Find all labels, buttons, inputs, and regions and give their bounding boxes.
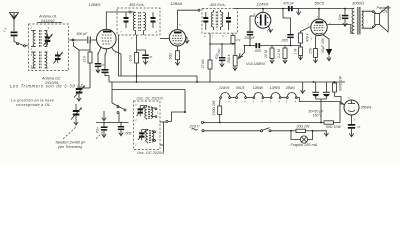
trimmer capacitor osc OC (138, 130, 146, 141)
tube V3 12AV6 (254, 12, 271, 34)
oscillator grid line from V1 (98, 51, 100, 60)
terminal node at box output (72, 39, 74, 41)
svg-text:corresponde a OL: corresponde a OL (16, 103, 50, 107)
capacitor 100pF to ground (214, 43, 225, 67)
svg-text:.005: .005 (254, 49, 261, 53)
oscillator feed wire (168, 111, 186, 121)
resistor below to ground (294, 46, 303, 60)
heater wire to rectifier (297, 98, 344, 105)
trimmer capacitor in T1 left (124, 12, 129, 28)
capacitor 100pF osc grid (95, 60, 106, 73)
svg-text:600Ω 1W: 600Ω 1W (339, 76, 343, 91)
tube V1 12BE6 (97, 29, 117, 49)
svg-text:Osc. OC 2020/4: Osc. OC 2020/4 (137, 151, 164, 155)
heater wire (231, 97, 236, 99)
svg-text:12AV6: 12AV6 (257, 1, 270, 6)
ground rail C (112, 82, 186, 113)
osc pin numbers (134, 103, 159, 147)
svg-text:12AV6: 12AV6 (219, 86, 229, 90)
V4 screen to rail (318, 9, 320, 20)
svg-text:27 kΩ: 27 kΩ (201, 59, 205, 70)
capacitor 470 (95, 123, 107, 138)
transformer T1 secondary winding (144, 12, 146, 35)
svg-text:Foquito 250 mA: Foquito 250 mA (291, 143, 318, 147)
svg-text:56Ω: 56Ω (169, 53, 173, 60)
detector line (210, 43, 235, 45)
ground at V2 right pin (185, 37, 189, 43)
V3 plate wire to rail (262, 9, 264, 13)
svg-text:150: 150 (309, 48, 313, 54)
svg-text:3000Ω: 3000Ω (352, 0, 364, 5)
wire bottom junction line (96, 111, 129, 123)
electrolytic 50uF 25V cathode bypass (321, 35, 332, 61)
core T2 (216, 12, 218, 28)
wires right of oscillator box (160, 120, 168, 151)
V3 cathode ground (268, 26, 272, 32)
svg-text:Los Trimmers son de 3-30 μF: Los Trimmers son de 3-30 μF (10, 84, 84, 89)
heater wire (281, 97, 286, 99)
svg-text:Osc. OL 2021/2: Osc. OL 2021/2 (137, 97, 164, 101)
output transformer T3 primary (352, 8, 354, 33)
svg-text:.005: .005 (125, 132, 132, 136)
AVC feed wire from 22k (79, 87, 90, 89)
T1 pin numbers (120, 30, 158, 40)
wire from terminal to tuning cap (74, 42, 91, 88)
dashed box antenna coil assembly (29, 24, 69, 71)
transformer L2 secondary winding (45, 52, 48, 68)
heater wire (264, 97, 270, 99)
trimmer capacitor in T1 right (151, 12, 156, 28)
svg-text:.05: .05 (149, 55, 153, 59)
series resistor 60 ohm 10W (324, 102, 341, 129)
heater chain V4 (235, 86, 247, 104)
AVC line down from T2 with 27k resistor (201, 33, 212, 82)
svg-text:La posición en la llave: La posición en la llave (11, 99, 54, 103)
capacitor under rectifier (348, 124, 361, 137)
tube V4 50C5 (307, 16, 332, 41)
potentiometer VOLUMEN 500k (227, 44, 245, 71)
wire V2 plate to T2 (178, 9, 201, 29)
svg-text:10 M: 10 M (264, 50, 268, 58)
label Parlante 3.2 (377, 6, 391, 14)
V4 cathode resistor 150 ohm (309, 35, 318, 63)
osc OL terminal pins (151, 108, 157, 118)
oscillator coil OL windings (140, 106, 153, 120)
heater chain V3 (219, 86, 231, 104)
V2 cathode resistor (169, 46, 180, 65)
electrolytic capacitor 50uF A (312, 82, 321, 99)
svg-text:500 k: 500 k (227, 54, 231, 63)
label Tandem 2x490 pF (55, 126, 108, 149)
capacitor under V1 cathode (96, 52, 110, 82)
tube V5 35W4 rectifier (344, 96, 359, 124)
trimmer capacitor in T2 right (226, 12, 231, 30)
pin numbers L2 (31, 53, 33, 68)
note text La posicion (11, 99, 54, 108)
svg-text:VOLUMEN: VOLUMEN (246, 62, 265, 66)
svg-text:35W4: 35W4 (361, 105, 372, 110)
oscillator coil OC windings (142, 130, 154, 144)
core L2 (40, 52, 42, 69)
svg-text:455 Kc/s.: 455 Kc/s. (210, 3, 226, 7)
core T3 (358, 7, 360, 35)
capacitor .005 screen bypass (338, 9, 349, 27)
svg-text:10 k: 10 k (129, 55, 133, 62)
wire V1 plate to IF transformer T1 (106, 11, 134, 29)
heater ballast resistor 570 ohm (212, 99, 222, 124)
svg-text:12BA6: 12BA6 (170, 1, 183, 6)
svg-text:Tandem 2x490 pF: Tandem 2x490 pF (55, 141, 86, 145)
trimmer capacitor in T2 left (203, 12, 208, 30)
svg-text:570Ω 2W: 570Ω 2W (212, 100, 216, 115)
svg-text:60Ω 10W: 60Ω 10W (326, 125, 341, 129)
trimmer capacitor CT1 (43, 34, 52, 46)
svg-text:50µF 25V: 50µF 25V (321, 37, 325, 53)
electrolytic capacitor 50uF B (321, 82, 330, 99)
grid resistor 470k V4 (290, 26, 311, 46)
transformer L1 Antena OL primary winding (31, 31, 36, 47)
AVC rail A (119, 35, 198, 82)
svg-text:150 V: 150 V (313, 114, 323, 118)
trimmer capacitor osc OL (137, 106, 145, 117)
svg-text:50C5: 50C5 (315, 1, 325, 6)
label 50+50uF 150V (309, 110, 325, 118)
resistor 47k from T2 secondary (231, 33, 241, 45)
AC line lower (202, 130, 261, 132)
svg-text:2.2 M: 2.2 M (277, 49, 281, 59)
speaker terminals (372, 11, 376, 28)
transformer L1 secondary winding (45, 31, 48, 47)
svg-text:(sin Trimmers): (sin Trimmers) (58, 145, 83, 149)
AC line upper (201, 121, 324, 123)
lower coupling line with .005 capacitor (245, 43, 291, 53)
svg-text:2411/92: 2411/92 (40, 19, 55, 23)
transformer T2 primary winding (211, 10, 213, 30)
svg-text:1 M: 1 M (294, 49, 298, 55)
dashed box oscillator coils (134, 101, 161, 150)
svg-text:.005: .005 (338, 14, 343, 21)
svg-text:500 pF: 500 pF (77, 32, 89, 36)
B+ rail B (109, 81, 345, 83)
switch riser (118, 113, 120, 123)
tube V2 12BA6 (169, 30, 185, 46)
transformer T2 secondary winding (221, 10, 223, 30)
transformer T1 primary winding (133, 12, 135, 35)
svg-text:50C5: 50C5 (236, 86, 244, 90)
pin numbers L1 (30, 26, 50, 52)
svg-text:30Ω 2W: 30Ω 2W (297, 125, 311, 129)
dashed box IF transformer T2 (202, 9, 238, 33)
filter resistor 600 ohm (333, 76, 343, 97)
screen resistor drop from T1 (129, 35, 139, 82)
resistor 2.2M (277, 46, 287, 64)
svg-text:455 Kc/s.: 455 Kc/s. (129, 3, 145, 7)
band switch S1b (112, 90, 126, 114)
svg-text:35W4: 35W4 (286, 86, 295, 90)
grid riser with 100pF capacitor to V3 (244, 16, 256, 46)
B+ wire rectifier to filter (335, 97, 345, 105)
transformer L2 Antena OC primary winding (31, 52, 36, 68)
svg-text:12BE6: 12BE6 (89, 2, 102, 7)
svg-text:47k: 47k (236, 38, 241, 42)
svg-text:470 k: 470 k (306, 33, 310, 42)
label Antena OL 2411/92 (37, 15, 62, 23)
label 220V (189, 124, 200, 130)
chassis ground on AC line (313, 131, 329, 136)
power switch S2 (261, 128, 292, 132)
variable capacitor VC1a RF tuning (74, 86, 85, 102)
svg-text:.005: .005 (281, 39, 288, 43)
output transformer T3 secondary (362, 11, 373, 28)
antenna (10, 13, 19, 32)
V3 diode load resistor 10M (264, 46, 274, 64)
capacitor .005 osc (118, 123, 132, 136)
svg-text:3.2Ω: 3.2Ω (381, 10, 389, 14)
ground stub from B+ rail (301, 82, 305, 93)
V1 pin stubs (97, 47, 117, 57)
capacitor C2 500pF series (77, 32, 97, 44)
svg-text:100: 100 (101, 63, 106, 67)
svg-text:Antena OC: Antena OC (41, 77, 61, 81)
wiper riser wire (244, 45, 246, 53)
wire L1 secondary to grid line (69, 39, 87, 41)
svg-text:220 V: 220 V (189, 124, 200, 128)
svg-text:100 pF: 100 pF (244, 36, 256, 40)
heater chain V2 (253, 86, 264, 104)
svg-text:470 pF: 470 pF (283, 2, 295, 6)
heater chain V5 (286, 86, 298, 104)
shunt resistor 30 ohm 2W (290, 125, 312, 133)
capacitor 470pF on rail with ground (283, 2, 301, 15)
osc OC terminal pins (152, 131, 156, 141)
speaker (375, 6, 389, 32)
svg-text:12BE6: 12BE6 (270, 86, 281, 90)
svg-text:.05: .05 (357, 125, 361, 129)
wire T1 secondary to V2 grid (160, 37, 169, 39)
B+ top rail (234, 8, 353, 10)
grid resistor 22k (83, 40, 93, 88)
svg-text:12BA6: 12BA6 (253, 86, 264, 90)
heater chain V1 (270, 86, 282, 104)
heater wire (247, 97, 254, 99)
core T1 (139, 12, 141, 31)
dashed box IF transformer T1 (117, 8, 160, 35)
coupling branch to V4 grid (281, 9, 294, 46)
pilot lamp Foquito (291, 130, 313, 143)
variable capacitor VC1b oscillator tuning (71, 104, 82, 125)
V1 pin drop wire (114, 51, 122, 77)
svg-text:22 k: 22 k (83, 56, 87, 64)
V4 plate wire to output transformer (327, 25, 352, 34)
capacitor C1 1.5pF antenna coupling (2, 27, 17, 36)
wire antenna to switch (14, 36, 24, 45)
bypass capacitor next to screen resistor (137, 50, 153, 64)
switch S1a (17, 43, 29, 47)
trimmer capacitor CT2 (54, 52, 63, 64)
negative return wire to AC line (320, 99, 322, 123)
label Antena OC 2910/91 (41, 77, 61, 86)
T2 pin numbers (203, 34, 224, 38)
core L1 (40, 30, 42, 47)
